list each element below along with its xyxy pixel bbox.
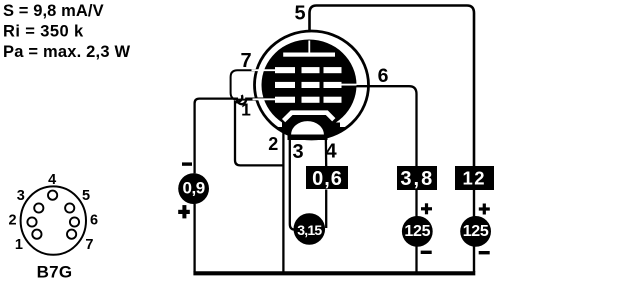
svg-text:3: 3 bbox=[17, 188, 25, 204]
svg-text:125: 125 bbox=[404, 223, 430, 240]
tube V1 envelope bbox=[255, 31, 369, 139]
svg-text:1: 1 bbox=[241, 100, 251, 120]
svg-text:7: 7 bbox=[85, 237, 93, 253]
wire right 125 battery to rail bbox=[473, 247, 475, 273]
wire pin4 heater lower to 3,15 battery bbox=[325, 190, 327, 229]
polarity plus (0,9) bbox=[178, 205, 190, 218]
wire 12-box to right 125 battery bbox=[473, 190, 475, 217]
svg-text:2: 2 bbox=[9, 213, 17, 229]
ground rail bbox=[193, 271, 475, 275]
wire pin1 g1 with crossover hop to 0,9 battery bbox=[195, 99, 265, 174]
socket hole pin3 bbox=[34, 203, 43, 212]
battery 0,9 V bbox=[178, 173, 209, 204]
battery 125 V (screen) bbox=[402, 216, 433, 247]
grid g3 lead stub bbox=[252, 69, 277, 71]
svg-text:12: 12 bbox=[463, 168, 487, 189]
socket hole pin7 bbox=[67, 230, 76, 239]
svg-text:0,9: 0,9 bbox=[183, 178, 205, 197]
svg-text:S = 9,8 mA/V: S = 9,8 mA/V bbox=[3, 2, 104, 20]
svg-text:7: 7 bbox=[240, 50, 251, 72]
svg-text:125: 125 bbox=[463, 223, 489, 240]
svg-text:Pa = max. 2,3 W: Pa = max. 2,3 W bbox=[3, 43, 131, 61]
heater filament window bbox=[290, 120, 325, 135]
wire pin3 heater to 3,15 battery bbox=[290, 134, 295, 230]
wire 0,9 battery to rail bbox=[193, 204, 195, 272]
svg-text:6: 6 bbox=[378, 65, 389, 87]
current label box 3,8 bbox=[397, 166, 437, 190]
grid g3 row (pin 7) bbox=[275, 67, 342, 73]
current label box 12 bbox=[455, 166, 494, 190]
wire pin5 anode to 12-box branch bbox=[310, 6, 475, 167]
svg-text:1: 1 bbox=[15, 237, 23, 253]
svg-text:2: 2 bbox=[268, 134, 278, 154]
svg-text:5: 5 bbox=[294, 3, 305, 25]
wire left 125 battery to rail bbox=[415, 247, 417, 273]
wire pin6 screen grid to 3,8-box branch bbox=[352, 86, 417, 166]
svg-text:5: 5 bbox=[82, 188, 90, 204]
tube V1 interior bbox=[262, 40, 357, 131]
grid g2 lead stub bbox=[341, 84, 357, 86]
polarity plus (right 125) bbox=[479, 204, 490, 215]
svg-text:4: 4 bbox=[325, 141, 337, 163]
current label box 0,6 bbox=[306, 166, 348, 190]
socket hole pin1 bbox=[32, 230, 41, 239]
parameter text block bbox=[3, 2, 131, 61]
wire pin4 heater upper bbox=[325, 134, 328, 167]
anode lead stub bbox=[308, 41, 310, 54]
anode plate bbox=[283, 53, 335, 57]
polarity minus (0,9) bbox=[182, 162, 192, 165]
wire pin7 g3 down to cathode junction bbox=[235, 95, 283, 165]
socket hole pin6 bbox=[70, 217, 79, 226]
svg-text:3: 3 bbox=[292, 141, 303, 163]
socket hole pin5 bbox=[65, 203, 74, 212]
polarity plus (left 125) bbox=[421, 203, 432, 214]
socket hole pin4 bbox=[48, 191, 57, 200]
svg-text:4: 4 bbox=[48, 172, 56, 188]
heater battery 3,15 bbox=[294, 213, 326, 245]
battery 125 V (anode) bbox=[460, 216, 491, 247]
socket hole pin2 bbox=[27, 217, 36, 226]
svg-text:Ri = 350 k: Ri = 350 k bbox=[3, 22, 84, 40]
svg-text:3,15: 3,15 bbox=[297, 222, 322, 238]
tube base solid segment bbox=[277, 127, 346, 138]
grid g1 row (pin 1) bbox=[275, 97, 342, 103]
socket B7G outline bbox=[21, 186, 86, 254]
grid g1 lead stub bbox=[253, 98, 277, 100]
svg-text:6: 6 bbox=[90, 213, 98, 229]
polarity minus (right 125) bbox=[479, 251, 490, 254]
heater filament arc bbox=[290, 120, 325, 135]
cathode bbox=[284, 113, 334, 121]
svg-text:3,8: 3,8 bbox=[400, 168, 434, 190]
wire 3,8-box to left 125 battery bbox=[415, 190, 417, 217]
tube V1 grid-cap bump bbox=[231, 70, 257, 99]
wire pin2 cathode to rail bbox=[282, 121, 284, 272]
tube base chord bbox=[288, 135, 328, 141]
svg-text:0,6: 0,6 bbox=[312, 168, 343, 190]
polarity minus (left 125) bbox=[421, 251, 432, 254]
grid g2 row (pin 6) bbox=[275, 82, 342, 88]
svg-text:B7G: B7G bbox=[37, 263, 73, 281]
